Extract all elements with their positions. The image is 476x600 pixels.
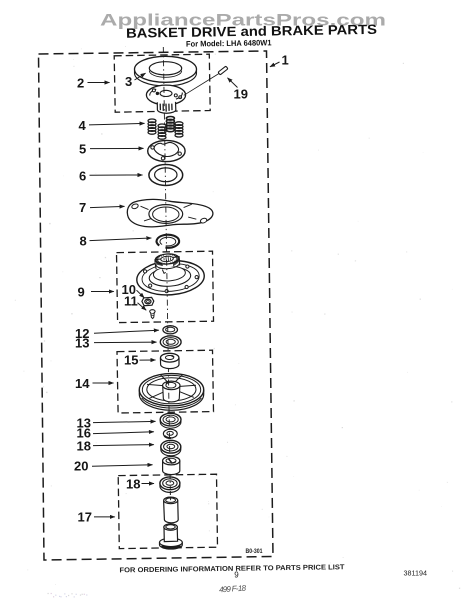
label item 20 spacer [74,459,153,474]
pulley assembly 14 [139,374,203,411]
svg-text:8: 8 [80,234,87,249]
svg-text:15: 15 [124,353,138,368]
centerline (dash-dot axis) [163,47,170,490]
spacer 20 [163,457,180,475]
svg-text:499 F-18: 499 F-18 [219,583,247,594]
svg-text:1: 1 [282,53,289,68]
part 7 mounting plate [127,199,213,227]
label item 11 screw [124,294,146,311]
label item 1 border [270,53,289,68]
part 3 clutch ring [135,56,197,86]
svg-text:6: 6 [79,169,86,184]
label item 18 upper bearing [77,439,154,454]
svg-text:14: 14 [75,376,90,391]
subtitle For Model: LHA 6480W1 [186,38,272,48]
splined collar under hub [157,102,176,113]
label item 10 nut [122,282,145,298]
label item 18 lower bearing [126,477,154,492]
leader line pin 19 to hub [184,74,219,96]
part 5 cam driver [148,140,185,161]
label item 12 washer [75,326,159,341]
svg-text:3: 3 [125,74,132,89]
svg-text:381194: 381194 [404,569,427,578]
dashed box assembly 9 [117,251,214,322]
label item 7 plate [79,200,125,215]
svg-text:For Model: LHA 6480W1: For Model: LHA 6480W1 [186,38,272,48]
label item 17 assembly [78,510,115,525]
svg-text:11: 11 [124,294,138,309]
svg-text:2: 2 [77,76,84,91]
svg-text:18: 18 [126,477,140,492]
label item 4 springs [79,118,145,133]
outer dashed border (item 1 boundary) [39,51,274,560]
bearing 18 lower [160,477,180,493]
label item 2 assembly [77,76,110,91]
footer FOR ORDERING INFORMATION [119,564,345,574]
svg-text:17: 17 [78,510,92,525]
tube of 17 upper [164,497,179,523]
svg-text:13: 13 [75,336,89,351]
handwritten mark 499 F-18 [219,583,247,594]
title BASKET DRIVE and BRAKE PARTS [126,22,377,41]
label item 5 cam [79,142,144,157]
bearing washer 13 lower [160,413,181,428]
screw 11 [150,310,155,319]
label item 15 spacer [124,353,156,368]
dashed box assembly 2 [114,54,210,112]
label item 14 pulley assembly [75,376,114,391]
bearing housing assembly 9 [135,251,206,297]
bearing washer 13 [160,336,181,348]
label item 13 lower washer [77,416,156,431]
bearing 18 upper [161,440,181,456]
washer 12 [163,326,178,334]
thrust cap 16 [163,429,177,438]
label item 19 pin [228,78,248,102]
dashed box assembly 17 [118,474,217,548]
svg-text:7: 7 [79,200,86,215]
label item 16 cap [77,426,154,441]
svg-text:20: 20 [74,459,88,474]
label item 3 ring [125,73,146,89]
spacer 15 [160,353,179,368]
centerline segment between bearing and tube [169,491,171,499]
scan speckles bottom left [48,593,88,598]
centerline segment between tubes [170,522,172,527]
part 8 snap ring [157,235,180,248]
svg-text:4: 4 [79,118,87,133]
drive hub of assembly 2 [146,85,185,105]
part 6 spacer washer [149,165,183,186]
svg-text:18: 18 [77,439,91,454]
svg-text:B0-301: B0-301 [246,549,264,555]
label item 6 washer [79,169,143,184]
svg-text:9: 9 [234,571,239,580]
springs 4 [148,117,183,140]
svg-text:9: 9 [78,285,85,300]
svg-text:5: 5 [79,142,86,157]
tube of 17 lower with flange [160,524,183,549]
svg-text:19: 19 [234,86,248,101]
svg-text:FOR ORDERING INFORMATION REFER: FOR ORDERING INFORMATION REFER TO PARTS … [119,564,345,574]
nut 10 [142,297,154,305]
label item 8 snap ring [80,234,152,249]
label item 9 housing [78,285,114,300]
pin 19 [218,66,228,75]
dashed box assembly 14 [117,350,214,413]
label item 13 bearing washer [75,336,157,351]
